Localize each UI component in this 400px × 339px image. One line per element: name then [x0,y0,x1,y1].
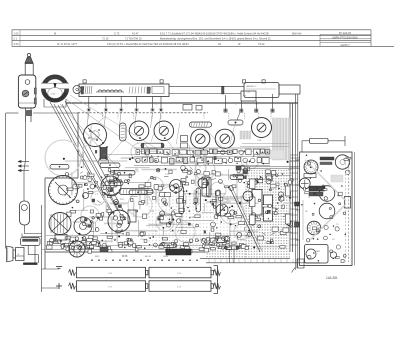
svg-text:8 10.7.71 Schltbild 67.171-04: 8 10.7.71 Schltbild 67.171-04 4054/140 1… [160,31,269,35]
svg-text:2 1: 2 1 [14,37,18,41]
svg-text:FM: FM [243,96,246,98]
svg-text:P12 (2) 4T-6T + PowerS$4 24 V: P12 (2) 4T-6T + PowerS$4 24 Vdd 5/12 TEX… [107,42,189,46]
svg-text:1 05: 1 05 [14,31,20,35]
svg-text:71 TEVGW 16: 71 TEVGW 16 [125,37,142,41]
svg-text:AM FM L5: AM FM L5 [247,85,257,88]
svg-text:1.5V: 1.5V [108,286,113,288]
svg-text:AF116: AF116 [145,255,152,258]
svg-text:14225 7: 14225 7 [340,43,350,47]
svg-text:1.5V: 1.5V [108,273,113,275]
svg-text:43 47: 43 47 [132,31,139,35]
svg-text:M 66: M 66 [122,255,128,258]
svg-text:3 06: 3 06 [14,42,20,46]
svg-text:72 16: 72 16 [102,37,109,41]
svg-text:W. Cl 25 W. 1277: W. Cl 25 W. 1277 [57,42,78,46]
svg-text:1.5V: 1.5V [177,273,182,275]
svg-text:AC128: AC128 [52,241,59,244]
svg-text:10 66: 10 66 [51,94,56,96]
svg-text:Bedrahtschltg. durchgehend Ers: Bedrahtschltg. durchgehend Ers. 10:1 und… [160,37,271,41]
svg-text:67 124-15: 67 124-15 [339,31,352,35]
svg-text:14A 281: 14A 281 [326,276,338,280]
svg-text:M: M [54,31,56,35]
svg-text:SWRb.PTG23/63 W2A: SWRb.PTG23/63 W2A [332,36,358,39]
svg-text:79 62: 79 62 [258,42,265,46]
svg-text:S 73: S 73 [114,31,120,35]
svg-text:MW Hbf: MW Hbf [292,31,302,35]
svg-text:1.5V: 1.5V [177,286,182,288]
svg-text:NS36: NS36 [163,256,169,258]
